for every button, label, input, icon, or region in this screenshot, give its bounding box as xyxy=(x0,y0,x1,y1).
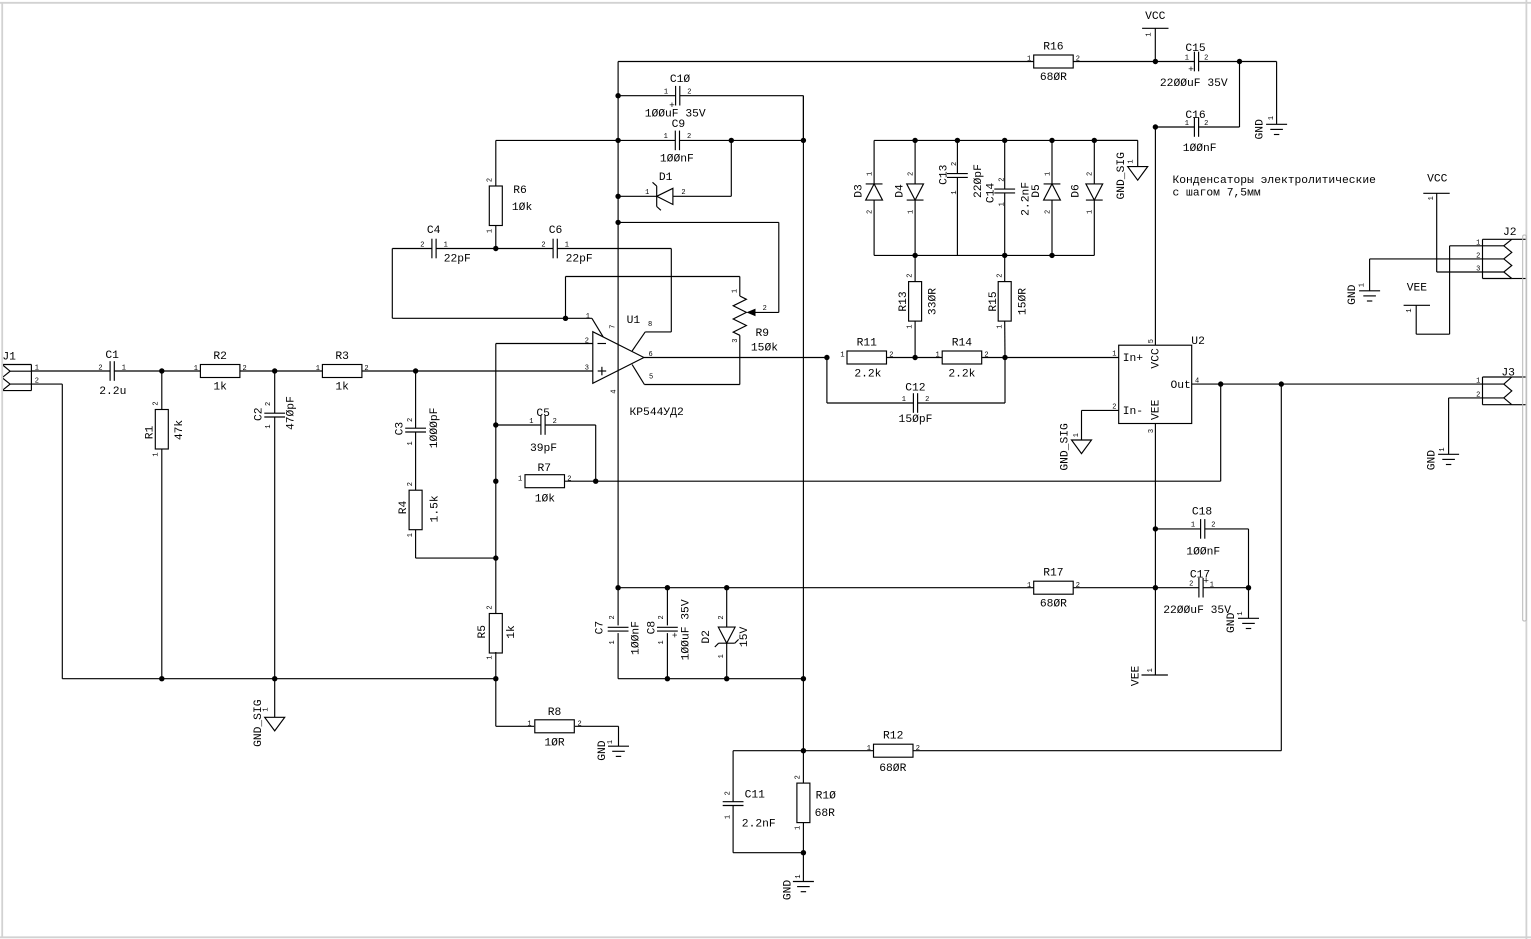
svg-text:D4: D4 xyxy=(894,184,906,198)
node R12 junction xyxy=(801,748,806,753)
svg-text:1: 1 xyxy=(265,424,273,428)
svg-text:3: 3 xyxy=(585,364,589,372)
svg-text:Конденсаторы электролитические: Конденсаторы электролитические xyxy=(1173,175,1377,187)
U1 pin 7 label xyxy=(609,324,617,328)
node C9 right junction xyxy=(801,138,806,143)
node D6 top junction xyxy=(1092,138,1097,143)
svg-text:1: 1 xyxy=(1146,32,1154,36)
wire R3 to U1 pin3 xyxy=(362,370,593,372)
node C17 right junction xyxy=(1246,585,1251,590)
svg-text:GND: GND xyxy=(1254,119,1266,140)
svg-text:1k: 1k xyxy=(506,625,518,639)
svg-text:1.5k: 1.5k xyxy=(430,495,442,522)
svg-text:C8: C8 xyxy=(647,621,659,635)
svg-text:2: 2 xyxy=(718,615,726,619)
svg-text:1: 1 xyxy=(1147,668,1155,672)
svg-text:J1: J1 xyxy=(2,352,16,364)
svg-text:C1Ø: C1Ø xyxy=(670,74,691,86)
svg-text:1: 1 xyxy=(1027,56,1031,64)
capacitor C7 xyxy=(595,588,643,679)
svg-text:1: 1 xyxy=(444,242,448,250)
U1 pin 8 stub xyxy=(632,249,671,352)
svg-text:1: 1 xyxy=(486,229,494,233)
svg-text:+: + xyxy=(1203,576,1209,587)
wire U2 Out row xyxy=(1192,383,1504,385)
node R3/C3 junction xyxy=(413,368,418,373)
node C8 rail junction xyxy=(665,585,670,590)
node D5 top junction xyxy=(1049,138,1054,143)
svg-text:2: 2 xyxy=(553,418,557,426)
svg-text:5: 5 xyxy=(649,373,653,381)
node C11/R10 junction xyxy=(801,850,806,855)
svg-text:1ØR: 1ØR xyxy=(544,738,565,750)
svg-text:VCC: VCC xyxy=(1151,348,1163,369)
wire R9 wiper row xyxy=(618,222,779,312)
node pin1/R9 junction xyxy=(563,316,568,321)
svg-text:2.2u: 2.2u xyxy=(99,386,126,398)
svg-text:GND: GND xyxy=(782,880,794,901)
svg-text:1ØØnF: 1ØØnF xyxy=(660,154,694,166)
svg-text:1: 1 xyxy=(607,740,615,744)
svg-text:D5: D5 xyxy=(1031,184,1043,198)
diode D6 xyxy=(1071,140,1103,255)
wire C1 to R2 xyxy=(114,370,200,372)
svg-text:2.2k: 2.2k xyxy=(948,369,975,381)
ground GND_SIG left xyxy=(253,679,285,747)
svg-text:1: 1 xyxy=(586,313,590,321)
node C16 left junction xyxy=(1153,124,1158,129)
svg-text:1: 1 xyxy=(486,655,494,659)
svg-text:КР544УД2: КР544УД2 xyxy=(630,407,684,419)
capacitor C9 xyxy=(618,119,803,166)
svg-text:68ØR: 68ØR xyxy=(1040,598,1067,610)
svg-text:1ØØnF: 1ØØnF xyxy=(631,621,643,655)
capacitor C3 xyxy=(394,371,441,448)
svg-text:1: 1 xyxy=(935,352,939,360)
wire feedback row xyxy=(565,384,1221,481)
svg-text:47ØpF: 47ØpF xyxy=(286,396,298,430)
wire U1 pin2 row xyxy=(496,343,593,345)
resistor R1 xyxy=(145,371,186,679)
node R2/C2 junction xyxy=(272,368,277,373)
svg-text:1: 1 xyxy=(565,242,569,250)
node C2 bus junction xyxy=(272,676,277,681)
svg-text:68R: 68R xyxy=(815,808,836,820)
svg-text:6: 6 xyxy=(649,351,653,359)
capacitor C11 xyxy=(723,751,804,853)
wire J1 pin2 drop xyxy=(31,384,62,679)
node D1 junction xyxy=(615,194,620,199)
svg-text:1: 1 xyxy=(407,533,415,537)
svg-text:R5: R5 xyxy=(477,625,489,639)
svg-text:1: 1 xyxy=(1185,120,1189,128)
svg-text:In+: In+ xyxy=(1123,353,1144,365)
node R14/R15/C12 junction xyxy=(1002,355,1007,360)
svg-text:1: 1 xyxy=(1268,116,1276,120)
wire C4 to U1 pin1 xyxy=(392,249,592,319)
resistor R12 xyxy=(803,731,1281,775)
svg-text:1Øk: 1Øk xyxy=(535,494,556,506)
note capacitors xyxy=(1173,175,1377,199)
U1 pin 1 stub xyxy=(586,313,603,337)
svg-text:2: 2 xyxy=(906,273,914,277)
capacitor C15 xyxy=(1160,43,1240,90)
ground GND_SIG diodes xyxy=(1094,140,1147,199)
svg-text:1: 1 xyxy=(1210,582,1214,590)
wire diode rail top xyxy=(874,139,1138,141)
U1 pin 5 stub xyxy=(632,365,740,385)
svg-text:C1: C1 xyxy=(105,350,119,362)
node R13 rail junction xyxy=(912,253,917,258)
node R7 left junction xyxy=(493,479,498,484)
svg-text:GND_SIG: GND_SIG xyxy=(1060,423,1072,471)
svg-text:2: 2 xyxy=(486,178,494,182)
svg-text:1: 1 xyxy=(1044,172,1052,176)
svg-text:U1: U1 xyxy=(627,315,641,327)
svg-text:C2: C2 xyxy=(254,407,266,421)
svg-text:C6: C6 xyxy=(549,225,563,237)
capacitor C2 xyxy=(254,371,298,679)
svg-text:1Øk: 1Øk xyxy=(512,202,533,214)
node C10 left junction xyxy=(615,93,620,98)
svg-text:GND: GND xyxy=(1347,284,1359,305)
wire C15 to GND xyxy=(1240,62,1277,125)
diode D4 xyxy=(894,140,923,255)
svg-text:R9: R9 xyxy=(756,328,770,340)
svg-text:GND_SIG: GND_SIG xyxy=(1116,152,1128,200)
svg-text:VEE: VEE xyxy=(1151,399,1163,420)
svg-text:2: 2 xyxy=(996,273,1004,277)
svg-text:1: 1 xyxy=(609,640,617,644)
wire R9 pin1 row xyxy=(566,277,740,319)
node C7 rail junction xyxy=(615,585,620,590)
svg-text:2: 2 xyxy=(998,178,1006,182)
svg-text:C3: C3 xyxy=(394,422,406,436)
capacitor C1 xyxy=(98,350,126,398)
svg-text:1: 1 xyxy=(867,745,871,753)
svg-text:2: 2 xyxy=(1044,210,1052,214)
svg-text:1k: 1k xyxy=(213,382,227,394)
svg-text:3: 3 xyxy=(732,338,740,342)
svg-text:1: 1 xyxy=(724,815,732,819)
wire U2 pin5 column xyxy=(1154,127,1156,345)
diode D3 xyxy=(854,140,883,255)
wire R5 to R8 xyxy=(495,679,497,727)
diode D2 zener xyxy=(701,588,751,679)
svg-text:J2: J2 xyxy=(1503,227,1517,239)
svg-text:2: 2 xyxy=(763,305,767,313)
svg-text:+: + xyxy=(670,632,681,638)
node output/C12 junction xyxy=(824,355,829,360)
capacitor C8 xyxy=(647,588,693,679)
resistor R5 xyxy=(477,605,518,678)
svg-text:2: 2 xyxy=(541,242,545,250)
svg-text:1ØØuF 35V: 1ØØuF 35V xyxy=(680,599,692,660)
U1 pin 4 label xyxy=(611,389,619,393)
svg-text:2: 2 xyxy=(265,402,273,406)
svg-text:1: 1 xyxy=(795,874,803,878)
svg-text:7: 7 xyxy=(609,324,617,328)
capacitor C6 xyxy=(496,225,672,265)
node C9 left junction xyxy=(615,138,620,143)
capacitor C10 xyxy=(618,74,803,140)
wire V+ column x=618 xyxy=(617,62,619,588)
node C13 top junction xyxy=(955,138,960,143)
svg-text:2: 2 xyxy=(889,352,893,360)
svg-text:2: 2 xyxy=(984,352,988,360)
U1 pin 6 stub xyxy=(644,351,827,359)
svg-text:1: 1 xyxy=(732,289,740,293)
svg-text:2: 2 xyxy=(687,89,691,97)
svg-text:C5: C5 xyxy=(536,408,550,420)
svg-text:1: 1 xyxy=(194,365,198,373)
node R15 rail junction xyxy=(1002,253,1007,258)
svg-text:R7: R7 xyxy=(538,463,552,475)
svg-text:VEE: VEE xyxy=(1407,283,1428,295)
wire R14 to U2 xyxy=(982,357,1119,359)
svg-text:1: 1 xyxy=(1237,611,1245,615)
capacitor C14 xyxy=(986,140,1033,255)
svg-text:2: 2 xyxy=(925,396,929,404)
node R6/C4/C6 junction xyxy=(493,246,498,251)
svg-text:4: 4 xyxy=(611,389,619,393)
svg-text:C14: C14 xyxy=(986,183,998,204)
node C1/R1 junction xyxy=(159,368,164,373)
svg-text:VCC: VCC xyxy=(1145,11,1166,23)
svg-text:1: 1 xyxy=(1428,196,1436,200)
svg-text:1: 1 xyxy=(902,396,906,404)
trimmer R9 xyxy=(732,277,779,385)
svg-text:с шагом 7,5мм: с шагом 7,5мм xyxy=(1173,188,1261,200)
node feedback junction xyxy=(1218,381,1223,386)
svg-text:1: 1 xyxy=(1027,582,1031,590)
svg-text:1: 1 xyxy=(866,172,874,176)
node C5/R7 right junction xyxy=(593,479,598,484)
wire diode rail bottom xyxy=(874,254,1094,256)
svg-text:R1Ø: R1Ø xyxy=(816,791,837,803)
svg-text:R8: R8 xyxy=(548,707,562,719)
svg-text:2: 2 xyxy=(951,162,959,166)
svg-text:1: 1 xyxy=(1087,210,1095,214)
wire Out to R12 column xyxy=(1280,384,1282,751)
svg-text:39pF: 39pF xyxy=(530,443,557,455)
svg-text:2: 2 xyxy=(795,775,803,779)
U1 pin 2 label xyxy=(585,338,589,346)
svg-text:1ØØØpF: 1ØØØpF xyxy=(429,408,441,449)
svg-text:R16: R16 xyxy=(1043,42,1064,54)
svg-text:1: 1 xyxy=(795,826,803,830)
svg-text:2: 2 xyxy=(1211,522,1215,530)
svg-text:1: 1 xyxy=(840,352,844,360)
svg-text:2: 2 xyxy=(658,615,666,619)
wire J1 pin1 to C1 xyxy=(31,370,110,372)
wire U2 pin3 column xyxy=(1154,424,1156,676)
svg-text:2: 2 xyxy=(1204,120,1208,128)
svg-text:1: 1 xyxy=(316,365,320,373)
svg-text:2: 2 xyxy=(1087,172,1095,176)
wire output-ground column x=803 xyxy=(802,96,804,784)
capacitor C5 xyxy=(496,408,596,481)
resistor R17 xyxy=(1027,568,1080,611)
node D5 rail junction xyxy=(1049,253,1054,258)
resistor R14 xyxy=(935,338,988,381)
svg-text:J3: J3 xyxy=(1501,367,1515,379)
ground GND at R8 xyxy=(597,726,629,760)
svg-text:1: 1 xyxy=(529,418,533,426)
svg-text:C13: C13 xyxy=(938,164,950,185)
svg-text:R6: R6 xyxy=(513,185,527,197)
node R1 bus junction xyxy=(159,676,164,681)
svg-text:1: 1 xyxy=(1185,54,1189,62)
node VEE/C17 junction xyxy=(1153,585,1158,590)
op-amp U1 xyxy=(593,315,684,419)
svg-text:1: 1 xyxy=(1191,522,1195,530)
svg-text:2: 2 xyxy=(407,418,415,422)
svg-text:Out: Out xyxy=(1171,380,1191,392)
svg-text:R15: R15 xyxy=(988,291,1000,312)
ground GND_SIG at U2 In- xyxy=(1060,410,1119,470)
svg-text:1: 1 xyxy=(664,89,668,97)
svg-text:1: 1 xyxy=(1359,283,1367,287)
svg-text:D6: D6 xyxy=(1071,184,1083,198)
power VEE at U2 xyxy=(1131,666,1168,687)
svg-text:VCC: VCC xyxy=(1427,174,1448,186)
svg-text:2: 2 xyxy=(1204,54,1208,62)
svg-text:R4: R4 xyxy=(398,501,410,515)
wire R6 top to V+ column xyxy=(496,139,618,141)
svg-text:2: 2 xyxy=(407,482,415,486)
wire J2 pin1 row xyxy=(1450,245,1483,247)
capacitor C13 xyxy=(938,140,985,255)
svg-text:22ØpF: 22ØpF xyxy=(973,164,985,198)
wire V- rail xyxy=(618,587,1034,589)
svg-text:GND: GND xyxy=(1427,450,1439,471)
svg-text:2: 2 xyxy=(1076,56,1080,64)
svg-text:2: 2 xyxy=(1189,581,1193,589)
resistor R8 xyxy=(496,707,619,749)
svg-text:2: 2 xyxy=(567,475,571,483)
svg-text:C7: C7 xyxy=(595,621,607,635)
svg-text:68ØR: 68ØR xyxy=(879,763,906,775)
capacitor C12 xyxy=(827,358,1005,426)
ground GND at R10 xyxy=(782,853,814,900)
svg-text:U2: U2 xyxy=(1191,336,1205,348)
resistor R15 xyxy=(988,255,1030,357)
svg-text:C11: C11 xyxy=(745,790,766,802)
ground GND at J2 xyxy=(1347,259,1482,305)
capacitor C16 xyxy=(1155,110,1239,155)
svg-text:1: 1 xyxy=(951,190,959,194)
svg-text:68ØR: 68ØR xyxy=(1040,72,1067,84)
wire R16 to VCC node xyxy=(1073,61,1194,63)
node R5 bus junction xyxy=(493,676,498,681)
svg-text:1ØØnF: 1ØØnF xyxy=(1183,143,1217,155)
svg-text:VEE: VEE xyxy=(1131,666,1143,687)
svg-text:+: + xyxy=(669,100,675,111)
svg-text:15ØR: 15ØR xyxy=(1017,288,1029,315)
svg-text:D2: D2 xyxy=(701,630,713,644)
resistor R10 xyxy=(795,775,836,853)
resistor R4 xyxy=(398,432,442,558)
resistor R7 xyxy=(518,463,572,506)
node R12 column junction xyxy=(1279,381,1284,386)
wire mid bus right xyxy=(618,678,803,680)
svg-text:22ØØuF 35V: 22ØØuF 35V xyxy=(1160,78,1228,90)
wire C15/C16 right link xyxy=(1239,62,1241,128)
node C9/D1 junction xyxy=(729,138,734,143)
node C5 left junction xyxy=(493,422,498,427)
node D4 top junction xyxy=(912,138,917,143)
svg-text:15V: 15V xyxy=(739,627,751,648)
svg-text:1: 1 xyxy=(263,707,271,711)
svg-text:D1: D1 xyxy=(659,172,673,184)
capacitor C18 xyxy=(1155,507,1248,588)
svg-text:2.2nF: 2.2nF xyxy=(742,819,776,831)
node bus/column junction xyxy=(801,676,806,681)
svg-text:1k: 1k xyxy=(335,382,349,394)
svg-text:15Øk: 15Øk xyxy=(751,342,778,354)
node R4/column junction xyxy=(493,555,498,560)
node wiper row junction xyxy=(615,220,620,225)
resistor R16 xyxy=(1027,42,1080,85)
svg-text:2: 2 xyxy=(916,745,920,753)
node C14 top junction xyxy=(1002,138,1007,143)
svg-text:1: 1 xyxy=(658,640,666,644)
power VCC at J2 xyxy=(1423,174,1482,272)
svg-text:2: 2 xyxy=(907,172,915,176)
svg-text:+: + xyxy=(1188,64,1194,75)
wire top rail to R16 xyxy=(618,61,1034,63)
U1 pin 3 label xyxy=(585,364,589,372)
ground GND at C17 xyxy=(1226,588,1259,633)
resistor R3 xyxy=(316,351,369,394)
svg-text:1: 1 xyxy=(527,721,531,729)
svg-text:R2: R2 xyxy=(213,351,227,363)
svg-text:1: 1 xyxy=(645,189,649,197)
svg-text:2: 2 xyxy=(364,365,368,373)
svg-text:22ØØuF 35V: 22ØØuF 35V xyxy=(1163,605,1231,617)
svg-text:1: 1 xyxy=(1406,308,1414,312)
svg-text:2: 2 xyxy=(153,401,161,405)
svg-text:2: 2 xyxy=(687,133,691,141)
svg-text:C18: C18 xyxy=(1192,507,1213,519)
svg-text:2: 2 xyxy=(98,364,102,372)
svg-text:1: 1 xyxy=(996,324,1004,328)
svg-text:1ØØnF: 1ØØnF xyxy=(1186,547,1220,559)
svg-text:R11: R11 xyxy=(857,338,878,350)
svg-text:C9: C9 xyxy=(672,119,686,131)
svg-text:1: 1 xyxy=(906,324,914,328)
svg-text:1: 1 xyxy=(1439,447,1447,451)
svg-text:1: 1 xyxy=(907,210,915,214)
svg-text:R1: R1 xyxy=(145,426,157,440)
node C15 right junction xyxy=(1237,59,1242,64)
svg-text:15ØpF: 15ØpF xyxy=(899,414,933,426)
svg-text:In-: In- xyxy=(1123,406,1143,418)
wire ground bus left xyxy=(62,678,496,680)
svg-text:2: 2 xyxy=(585,338,589,346)
svg-text:2: 2 xyxy=(578,721,582,729)
svg-text:2: 2 xyxy=(1076,582,1080,590)
wire R4 to R5 column xyxy=(416,557,496,559)
power VCC top xyxy=(1142,11,1168,62)
svg-text:1: 1 xyxy=(407,441,415,445)
connector J2 xyxy=(1476,227,1526,279)
svg-text:33ØR: 33ØR xyxy=(927,288,939,315)
svg-text:1: 1 xyxy=(1073,433,1081,437)
svg-text:2.2k: 2.2k xyxy=(854,369,881,381)
wire R2 to R3 xyxy=(240,370,322,372)
